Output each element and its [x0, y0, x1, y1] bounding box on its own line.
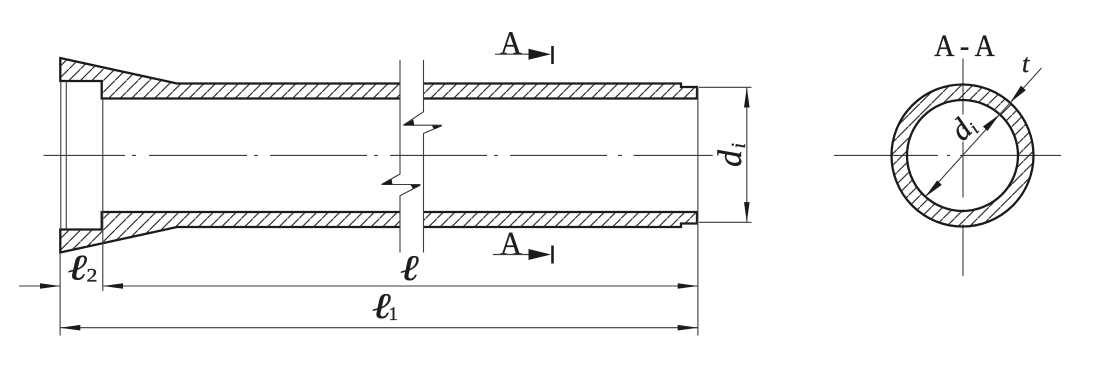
pipe outline top-right: [424, 84, 698, 99]
hatched wall: pipe top-right piece: [424, 84, 698, 99]
dimension di (main view): line: [746, 87, 748, 222]
extension line left (l2/l1): [59, 253, 61, 336]
t arrow (tip on outer circle, pointing down-left): [1010, 86, 1026, 103]
svg-text:A: A: [500, 226, 522, 262]
ring hatch: [892, 85, 1034, 227]
break line left: [382, 60, 421, 253]
hatched wall: bell+pipe bottom-left piece: [60, 212, 400, 253]
dimension l: right arrow: [678, 283, 698, 289]
di arrow lower-left (tip on inner circle): [925, 180, 942, 197]
section cut marker bottom: bar: [551, 246, 554, 264]
outer circle: [892, 85, 1034, 227]
dimension l2: tail line: [19, 285, 60, 287]
pipe outline bottom-left (bell): [60, 212, 400, 253]
pipe outline bottom-right: [424, 212, 698, 227]
svg-text:A: A: [500, 26, 522, 62]
svg-text:ℓ: ℓ: [68, 248, 88, 288]
section cut marker bottom: arrow: [529, 249, 552, 260]
dimension l1: right arrow: [678, 325, 698, 331]
inner circle: [907, 100, 1018, 211]
pipe outline top-left (bell): [60, 58, 400, 99]
diagonal di/t line: [925, 68, 1041, 197]
section cut marker top: bar: [551, 46, 554, 64]
break left wedge 1: [382, 179, 393, 185]
break line right: [403, 60, 442, 253]
dimension di (main view): top arrow: [744, 87, 750, 107]
dimension l1: line: [60, 327, 698, 329]
dimension di (main view): bottom arrow: [744, 202, 750, 222]
svg-text:ℓ: ℓ: [400, 248, 419, 288]
hatched wall: pipe bottom-right piece: [424, 212, 698, 227]
dimension l: line: [103, 285, 698, 287]
break right wedge 1: [403, 119, 414, 125]
section cut marker top: line: [495, 53, 540, 55]
di label (section): [943, 108, 983, 148]
svg-text:di: di: [712, 143, 750, 167]
di arrow upper-right (tip on inner circle): [983, 115, 1000, 132]
dimension di (main view): label: [712, 143, 750, 167]
hatched wall: bell+pipe top-left piece: [60, 58, 400, 99]
section centerline vertical: [962, 59, 964, 277]
socket step line: [102, 99, 104, 292]
extension line pipe end: [697, 87, 699, 336]
dimension di (main view): extension top: [699, 86, 752, 88]
svg-text:t: t: [1022, 49, 1030, 78]
break right wedge 2: [432, 126, 442, 130]
dimension l2: arrow (outside, pointing right): [40, 283, 60, 289]
dimension l1: left arrow: [60, 325, 80, 331]
svg-text:2: 2: [87, 265, 98, 286]
bell mouth rim line: [60, 81, 62, 230]
dimension l: left arrow: [103, 283, 123, 289]
section centerline horizontal: [834, 154, 1061, 156]
section cut marker top: arrow: [529, 49, 552, 60]
svg-text:1: 1: [389, 304, 399, 325]
break left wedge 2: [411, 185, 421, 189]
centerline main view: [44, 154, 713, 156]
bell mouth chamfer line: [65, 81, 67, 230]
dimension di (main view): extension bottom: [699, 221, 752, 223]
svg-text:A - A: A - A: [934, 28, 995, 63]
section cut marker bottom: line: [493, 254, 540, 256]
